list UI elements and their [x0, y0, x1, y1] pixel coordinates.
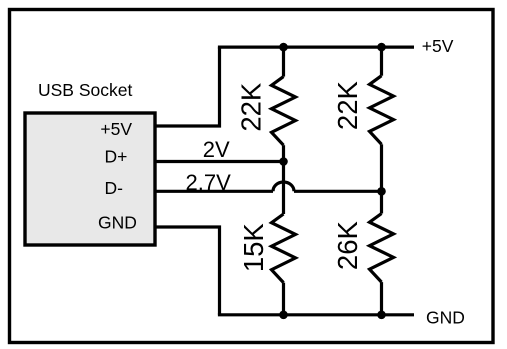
svg-text:2V: 2V: [203, 137, 230, 162]
junction dot: left column at GND rail: [279, 311, 288, 320]
junction dot: D+ node: [279, 157, 288, 166]
junction dot: D- node: [377, 187, 386, 196]
resistor 22K (top right) with leads: [370, 47, 394, 191]
svg-text:26K: 26K: [332, 220, 363, 270]
wire D- net (left of hop): [155, 190, 273, 193]
svg-text:D+: D+: [105, 146, 128, 166]
wire hop: D- over left column: [273, 182, 294, 191]
wire left column D+ node down to 15K: [282, 162, 285, 215]
resistor 15K (bottom left) with leads: [272, 214, 296, 315]
bottom GND rail: [218, 313, 414, 316]
svg-text:+5V: +5V: [422, 36, 454, 56]
junction dot: left column at +5V rail: [279, 43, 288, 52]
wire D- net (right of hop): [294, 190, 382, 193]
USB socket body: [25, 113, 155, 245]
svg-text:2.7V: 2.7V: [186, 170, 232, 195]
svg-text:22K: 22K: [332, 80, 363, 130]
svg-text:+5V: +5V: [100, 119, 132, 139]
svg-text:USB Socket: USB Socket: [38, 80, 132, 100]
svg-text:D-: D-: [105, 178, 124, 198]
junction dot: right column at GND rail: [377, 311, 386, 320]
wire GND pin to bottom rail: [155, 227, 220, 315]
top +5V rail: [218, 45, 414, 48]
resistor 22K (top left) with leads: [272, 47, 296, 161]
wire right column D- node down to 26K: [380, 191, 383, 213]
svg-text:15K: 15K: [238, 223, 269, 273]
resistor 26K (bottom right) with leads: [370, 214, 394, 315]
svg-text:22K: 22K: [236, 82, 267, 132]
wire D+ net: [155, 160, 284, 163]
wire +5V pin to top rail: [155, 47, 220, 126]
svg-text:GND: GND: [426, 307, 465, 327]
junction dot: right column at +5V rail: [377, 43, 386, 52]
svg-text:GND: GND: [98, 212, 137, 232]
